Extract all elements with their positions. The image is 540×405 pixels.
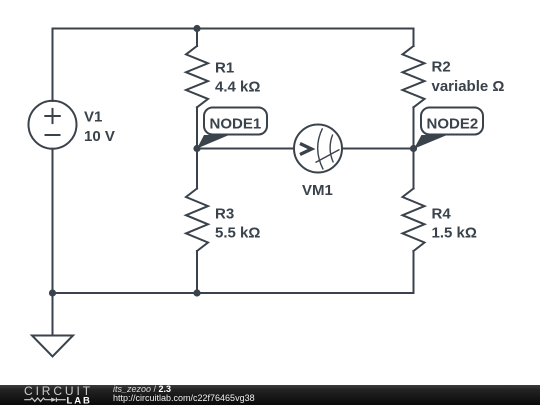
svg-text:LAB: LAB <box>67 395 92 405</box>
logo wire with resistor and diode <box>24 398 66 402</box>
wire left rail top <box>52 29 54 102</box>
svg-text:5.5 kΩ: 5.5 kΩ <box>215 225 260 242</box>
resistor R4 <box>403 189 425 252</box>
wire left rail bottom <box>52 149 54 293</box>
svg-text:R1: R1 <box>215 60 234 77</box>
wire R3 to bottom rail <box>196 251 198 293</box>
svg-text:NODE1: NODE1 <box>210 116 262 133</box>
wire R2 to NODE2 <box>413 107 415 148</box>
svg-text:VM1: VM1 <box>302 182 333 199</box>
wire voltmeter to NODE2 <box>342 148 414 150</box>
svg-text:R2: R2 <box>432 59 451 76</box>
node A (NODE1 junction) <box>193 145 200 152</box>
resistor R1 <box>186 46 208 107</box>
wire R1 to NODE1 <box>196 107 198 148</box>
svg-text:10 V: 10 V <box>84 128 115 145</box>
wire NODE1 to R3 <box>196 149 198 189</box>
voltmeter VM1 <box>294 125 342 173</box>
wire NODE1 to voltmeter <box>197 148 294 150</box>
node NODE1 callout <box>197 108 267 149</box>
svg-text:V1: V1 <box>84 108 102 125</box>
node B (NODE2 junction) <box>410 145 417 152</box>
resistor R2 <box>403 46 425 107</box>
svg-text:4.4 kΩ: 4.4 kΩ <box>215 79 260 96</box>
svg-text:1.5 kΩ: 1.5 kΩ <box>432 225 477 242</box>
wire R4 to bottom rail <box>413 251 415 293</box>
wire ground lead <box>52 293 54 336</box>
node junction top <box>193 25 200 32</box>
wire middle rail top <box>196 29 198 47</box>
svg-text:http://circuitlab.com/c22f7646: http://circuitlab.com/c22f76465vg38 <box>113 393 255 403</box>
wire bottom rail <box>53 292 414 294</box>
svg-text:NODE2: NODE2 <box>427 116 479 133</box>
wire right rail top <box>413 29 415 47</box>
wire top rail <box>53 28 414 30</box>
node junction bottom middle <box>193 289 200 296</box>
voltage source V1 <box>29 101 77 149</box>
ground <box>32 336 73 357</box>
svg-text:variable Ω: variable Ω <box>432 78 505 95</box>
wire NODE2 to R4 <box>413 149 415 189</box>
node NODE2 callout <box>414 108 483 149</box>
svg-text:R3: R3 <box>215 206 234 223</box>
svg-text:R4: R4 <box>432 206 452 223</box>
resistor R3 <box>186 189 208 252</box>
node junction bottom left <box>49 289 56 296</box>
